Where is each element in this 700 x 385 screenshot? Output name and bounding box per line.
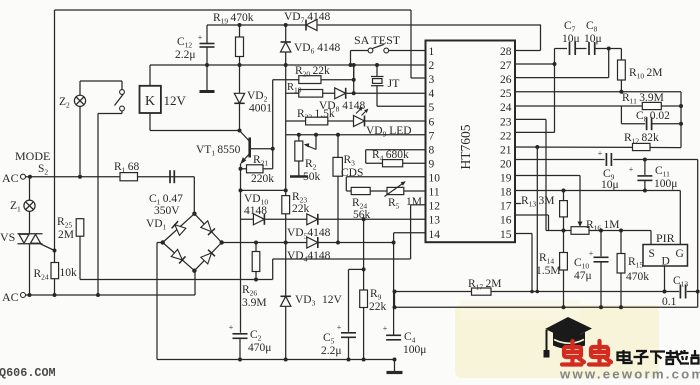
svg-text:S: S bbox=[649, 248, 655, 260]
svg-text:+: + bbox=[337, 323, 342, 332]
svg-text:1M: 1M bbox=[406, 196, 422, 208]
svg-text:9: 9 bbox=[429, 158, 435, 170]
svg-text:5: 5 bbox=[429, 102, 435, 114]
svg-text:28: 28 bbox=[500, 46, 512, 58]
svg-text:4001: 4001 bbox=[249, 103, 272, 115]
svg-text:Q606.COM: Q606.COM bbox=[0, 366, 56, 380]
svg-text:12V: 12V bbox=[322, 294, 343, 306]
svg-text:23: 23 bbox=[500, 116, 512, 128]
svg-text:R19 470k: R19 470k bbox=[213, 12, 254, 26]
svg-text:MODE: MODE bbox=[15, 149, 50, 163]
svg-text:VD44148: VD44148 bbox=[287, 250, 331, 264]
svg-text:+: + bbox=[198, 33, 203, 42]
svg-text:14: 14 bbox=[429, 229, 441, 241]
svg-text:21: 21 bbox=[500, 144, 512, 156]
svg-text:SA TEST: SA TEST bbox=[354, 33, 401, 47]
svg-text:6: 6 bbox=[429, 116, 435, 128]
svg-text:25: 25 bbox=[500, 88, 512, 100]
svg-text:26: 26 bbox=[500, 74, 512, 86]
svg-text:+: + bbox=[589, 249, 594, 258]
svg-text:VD9 LED: VD9 LED bbox=[366, 125, 412, 139]
svg-text:350V: 350V bbox=[154, 205, 180, 217]
svg-text:22k: 22k bbox=[369, 301, 387, 313]
svg-text:+: + bbox=[629, 165, 634, 174]
svg-text:1.5M: 1.5M bbox=[536, 265, 561, 277]
svg-text:R12 82k: R12 82k bbox=[624, 132, 659, 146]
svg-text:2.2μ: 2.2μ bbox=[175, 49, 196, 61]
svg-text:27: 27 bbox=[500, 60, 512, 72]
svg-text:18: 18 bbox=[500, 187, 512, 199]
svg-text:220k: 220k bbox=[251, 173, 274, 185]
svg-text:11: 11 bbox=[429, 187, 440, 199]
svg-text:R13 3M: R13 3M bbox=[521, 195, 554, 209]
svg-text:15: 15 bbox=[500, 229, 512, 241]
svg-text:VD6 4148: VD6 4148 bbox=[294, 42, 341, 56]
svg-text:24: 24 bbox=[500, 102, 512, 114]
svg-text:JT: JT bbox=[388, 76, 401, 90]
svg-text:R16 1M: R16 1M bbox=[586, 219, 619, 233]
svg-text:10μ: 10μ bbox=[584, 33, 602, 45]
svg-text:3: 3 bbox=[429, 74, 435, 86]
svg-text:470k: 470k bbox=[626, 271, 649, 283]
svg-text:C8 0.02: C8 0.02 bbox=[636, 110, 670, 124]
svg-text:100μ: 100μ bbox=[403, 344, 426, 356]
svg-text:PIR: PIR bbox=[656, 231, 675, 245]
svg-text:10μ: 10μ bbox=[601, 179, 619, 191]
svg-text:3.9M: 3.9M bbox=[242, 297, 267, 309]
svg-text:2: 2 bbox=[429, 60, 435, 72]
svg-text:10k: 10k bbox=[60, 267, 78, 279]
svg-text:470μ: 470μ bbox=[248, 342, 271, 354]
svg-text:0.1: 0.1 bbox=[662, 296, 677, 308]
svg-text:R10 2M: R10 2M bbox=[629, 67, 662, 81]
svg-text:7: 7 bbox=[429, 130, 435, 142]
svg-text:2M: 2M bbox=[58, 229, 74, 241]
svg-text:13: 13 bbox=[429, 215, 441, 227]
svg-text:47μ: 47μ bbox=[574, 270, 592, 282]
svg-text:50k: 50k bbox=[303, 171, 321, 183]
svg-text:+: + bbox=[598, 149, 603, 158]
svg-text:+: + bbox=[229, 323, 234, 332]
svg-text:+: + bbox=[383, 324, 388, 333]
svg-text:VS: VS bbox=[0, 230, 15, 244]
svg-text:17: 17 bbox=[500, 201, 512, 213]
svg-text:20: 20 bbox=[500, 158, 512, 170]
svg-text:1: 1 bbox=[429, 46, 435, 58]
svg-text:2.2μ: 2.2μ bbox=[321, 345, 342, 357]
svg-text:R17 2M: R17 2M bbox=[468, 278, 501, 292]
svg-text:HT7605: HT7605 bbox=[458, 124, 473, 169]
svg-text:4: 4 bbox=[429, 88, 435, 100]
svg-text:VT1 8550: VT1 8550 bbox=[196, 144, 241, 158]
svg-text:8: 8 bbox=[429, 144, 435, 156]
svg-text:K: K bbox=[145, 94, 155, 109]
svg-text:G: G bbox=[676, 248, 684, 260]
svg-text:16: 16 bbox=[500, 215, 512, 227]
svg-text:19: 19 bbox=[500, 173, 512, 185]
svg-text:4148: 4148 bbox=[244, 205, 267, 217]
svg-text:12: 12 bbox=[429, 201, 441, 213]
svg-text:22: 22 bbox=[500, 130, 512, 142]
svg-text:VD7 4148: VD7 4148 bbox=[284, 11, 331, 25]
svg-text:R4 680k: R4 680k bbox=[372, 149, 409, 163]
svg-text:AC: AC bbox=[2, 171, 19, 185]
svg-text:D: D bbox=[662, 256, 670, 268]
svg-text:R20 22k: R20 22k bbox=[295, 65, 330, 79]
svg-text:12V: 12V bbox=[164, 93, 187, 108]
svg-text:10: 10 bbox=[429, 173, 441, 185]
svg-text:R11 3.9M: R11 3.9M bbox=[622, 92, 664, 106]
svg-text:www.eeworm.com: www.eeworm.com bbox=[559, 367, 700, 381]
svg-text:10μ: 10μ bbox=[562, 33, 580, 45]
svg-text:100μ: 100μ bbox=[654, 178, 677, 190]
svg-text:AC: AC bbox=[2, 290, 19, 304]
